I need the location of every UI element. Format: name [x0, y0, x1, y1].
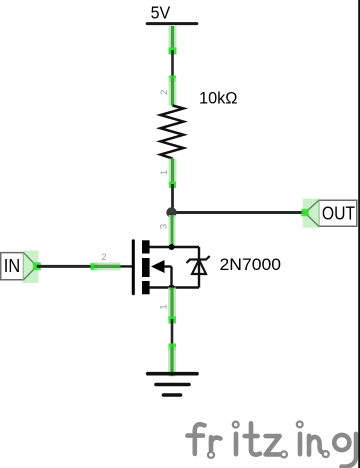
wire source to ground: [171, 319, 174, 348]
svg-text:2: 2: [101, 252, 106, 263]
ground symbol: [148, 374, 197, 395]
fritzing watermark: [187, 422, 356, 467]
net label OUT: [305, 200, 357, 226]
letter z: [266, 436, 280, 454]
window edge line (right): [358, 0, 360, 468]
letter f: [195, 424, 205, 454]
terminal junction (resistor pin 1 to wire): [169, 182, 176, 189]
letter i (second): [298, 434, 303, 454]
transistor Q1 gate bar: [132, 241, 135, 294]
ground pin leg (green): [168, 347, 176, 376]
gate lead of Q1: [94, 265, 133, 267]
svg-text:1: 1: [158, 304, 169, 309]
transistor Q1 channel top bar: [142, 240, 150, 253]
node junction dot: [166, 207, 176, 217]
letter g: [334, 435, 349, 450]
body diode D1 cathode bar (zener style): [187, 256, 210, 263]
drain horizontal lead: [149, 246, 199, 249]
transistor Q1 channel bottom bar: [142, 281, 150, 294]
pin 2 leg of resistor R1 (green): [169, 78, 177, 106]
svg-text:OUT: OUT: [322, 203, 355, 224]
svg-text:10kΩ: 10kΩ: [199, 88, 238, 107]
letter i (first): [234, 434, 239, 454]
terminal junction (wire to resistor pin 2): [169, 76, 176, 83]
source junction dot: [169, 285, 175, 291]
letter n: [309, 436, 322, 455]
letter r: [209, 437, 214, 450]
OUT net label highlight: [301, 199, 319, 228]
drain junction dot: [169, 244, 175, 250]
svg-text:1: 1: [159, 170, 170, 175]
wire IN to gate: [37, 265, 94, 268]
wire resistor to node: [171, 184, 174, 213]
wire 5V to resistor: [171, 50, 174, 79]
terminal junction (5V to wire): [169, 48, 177, 55]
source horizontal lead: [149, 286, 199, 289]
svg-text:2: 2: [159, 90, 170, 95]
body connection right branch: [198, 247, 200, 288]
letter t: [251, 423, 260, 454]
pin 1 source leg of Q1 (green): [168, 288, 176, 321]
body diode D1 triangle: [192, 260, 206, 274]
svg-text:3: 3: [158, 224, 169, 229]
IN net label highlight: [23, 251, 41, 284]
net label IN: [1, 253, 37, 280]
svg-text:2N7000: 2N7000: [220, 256, 282, 274]
svg-text:5V: 5V: [151, 2, 171, 22]
pin 3 drain leg of Q1 (green): [169, 215, 176, 246]
pin leg of 5V (green): [169, 26, 177, 51]
terminal junction (wire to ground pin): [169, 344, 177, 351]
substrate arrow of Q1: [151, 260, 172, 288]
terminal junction (IN wire to gate pin): [91, 263, 98, 270]
pin 1 leg of resistor R1 (green): [169, 159, 177, 186]
power symbol 5V: [147, 2, 197, 23]
wire node to OUT: [172, 211, 306, 214]
terminal junction (source to wire): [169, 317, 177, 324]
svg-text:IN: IN: [4, 255, 20, 276]
resistor R1 zigzag body: [161, 106, 184, 159]
transistor Q1 channel middle bar: [142, 258, 150, 277]
pin 2 gate leg of Q1 (green): [94, 262, 121, 270]
